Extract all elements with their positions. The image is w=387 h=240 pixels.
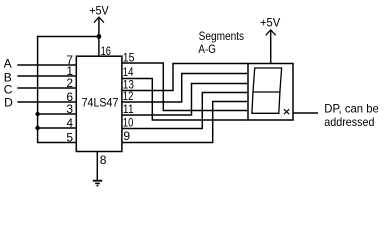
power +5V right: stem [270,31,272,64]
power +5V right: arrowhead [266,30,276,35]
wire: pin10 to segment d [122,93,248,129]
svg-text:+5V: +5V [260,15,280,29]
seven-segment digit 8: top loop [253,68,282,92]
svg-text:9: 9 [123,129,130,143]
display module box [248,64,293,121]
svg-text:DP, can be: DP, can be [324,101,379,115]
junction dot at +5V rail [97,34,102,39]
wire: +5V rail horizontal [37,36,99,38]
svg-text:D: D [4,96,13,110]
svg-text:11: 11 [123,102,134,116]
wire: pin9 to segment e [122,102,248,143]
wire: pin14 to segment g [122,79,248,121]
wire: input D [17,101,76,103]
svg-text:C: C [4,83,13,97]
wire: pin16 vertical [98,37,100,57]
wire: DP output [293,112,318,114]
junction dot pin3 [35,112,39,116]
svg-text:4: 4 [66,116,73,130]
IC U1 74LS47 box [76,56,122,151]
ground symbol [93,181,102,186]
wire: pin3 row [37,113,76,115]
svg-text:+5V: +5V [89,4,109,18]
power +5V left: arrowhead [94,17,104,22]
wire: input B [17,75,76,77]
wire: pin5 row [37,142,76,144]
wire: pin8 vertical [96,152,98,181]
decimal point marker x [284,109,289,114]
wire: pin4 row [37,127,76,129]
svg-text:A-G: A-G [198,42,216,56]
wire: pin15 to segment f [122,63,248,111]
power +5V left: stem [98,19,100,37]
svg-text:16: 16 [101,44,112,58]
svg-text:15: 15 [123,50,135,64]
svg-text:8: 8 [100,153,107,167]
svg-text:10: 10 [123,116,134,130]
svg-text:74LS47: 74LS47 [82,95,119,109]
svg-text:A: A [4,56,12,70]
wire: pin12 to segment b [122,74,248,103]
wire: input C [17,87,76,89]
svg-text:5: 5 [66,131,73,145]
seven-segment digit 8: bottom loop [252,92,280,113]
junction dot pin4 [35,126,39,130]
svg-text:addressed: addressed [324,115,374,129]
svg-text:2: 2 [66,76,73,90]
svg-text:Segments: Segments [199,29,245,43]
wire: input A [17,64,76,66]
svg-text:3: 3 [66,102,73,116]
wire: pin11 to segment c [122,84,248,116]
wire: left bus vertical [37,36,39,143]
wire: pin13 to segment a [122,64,248,91]
